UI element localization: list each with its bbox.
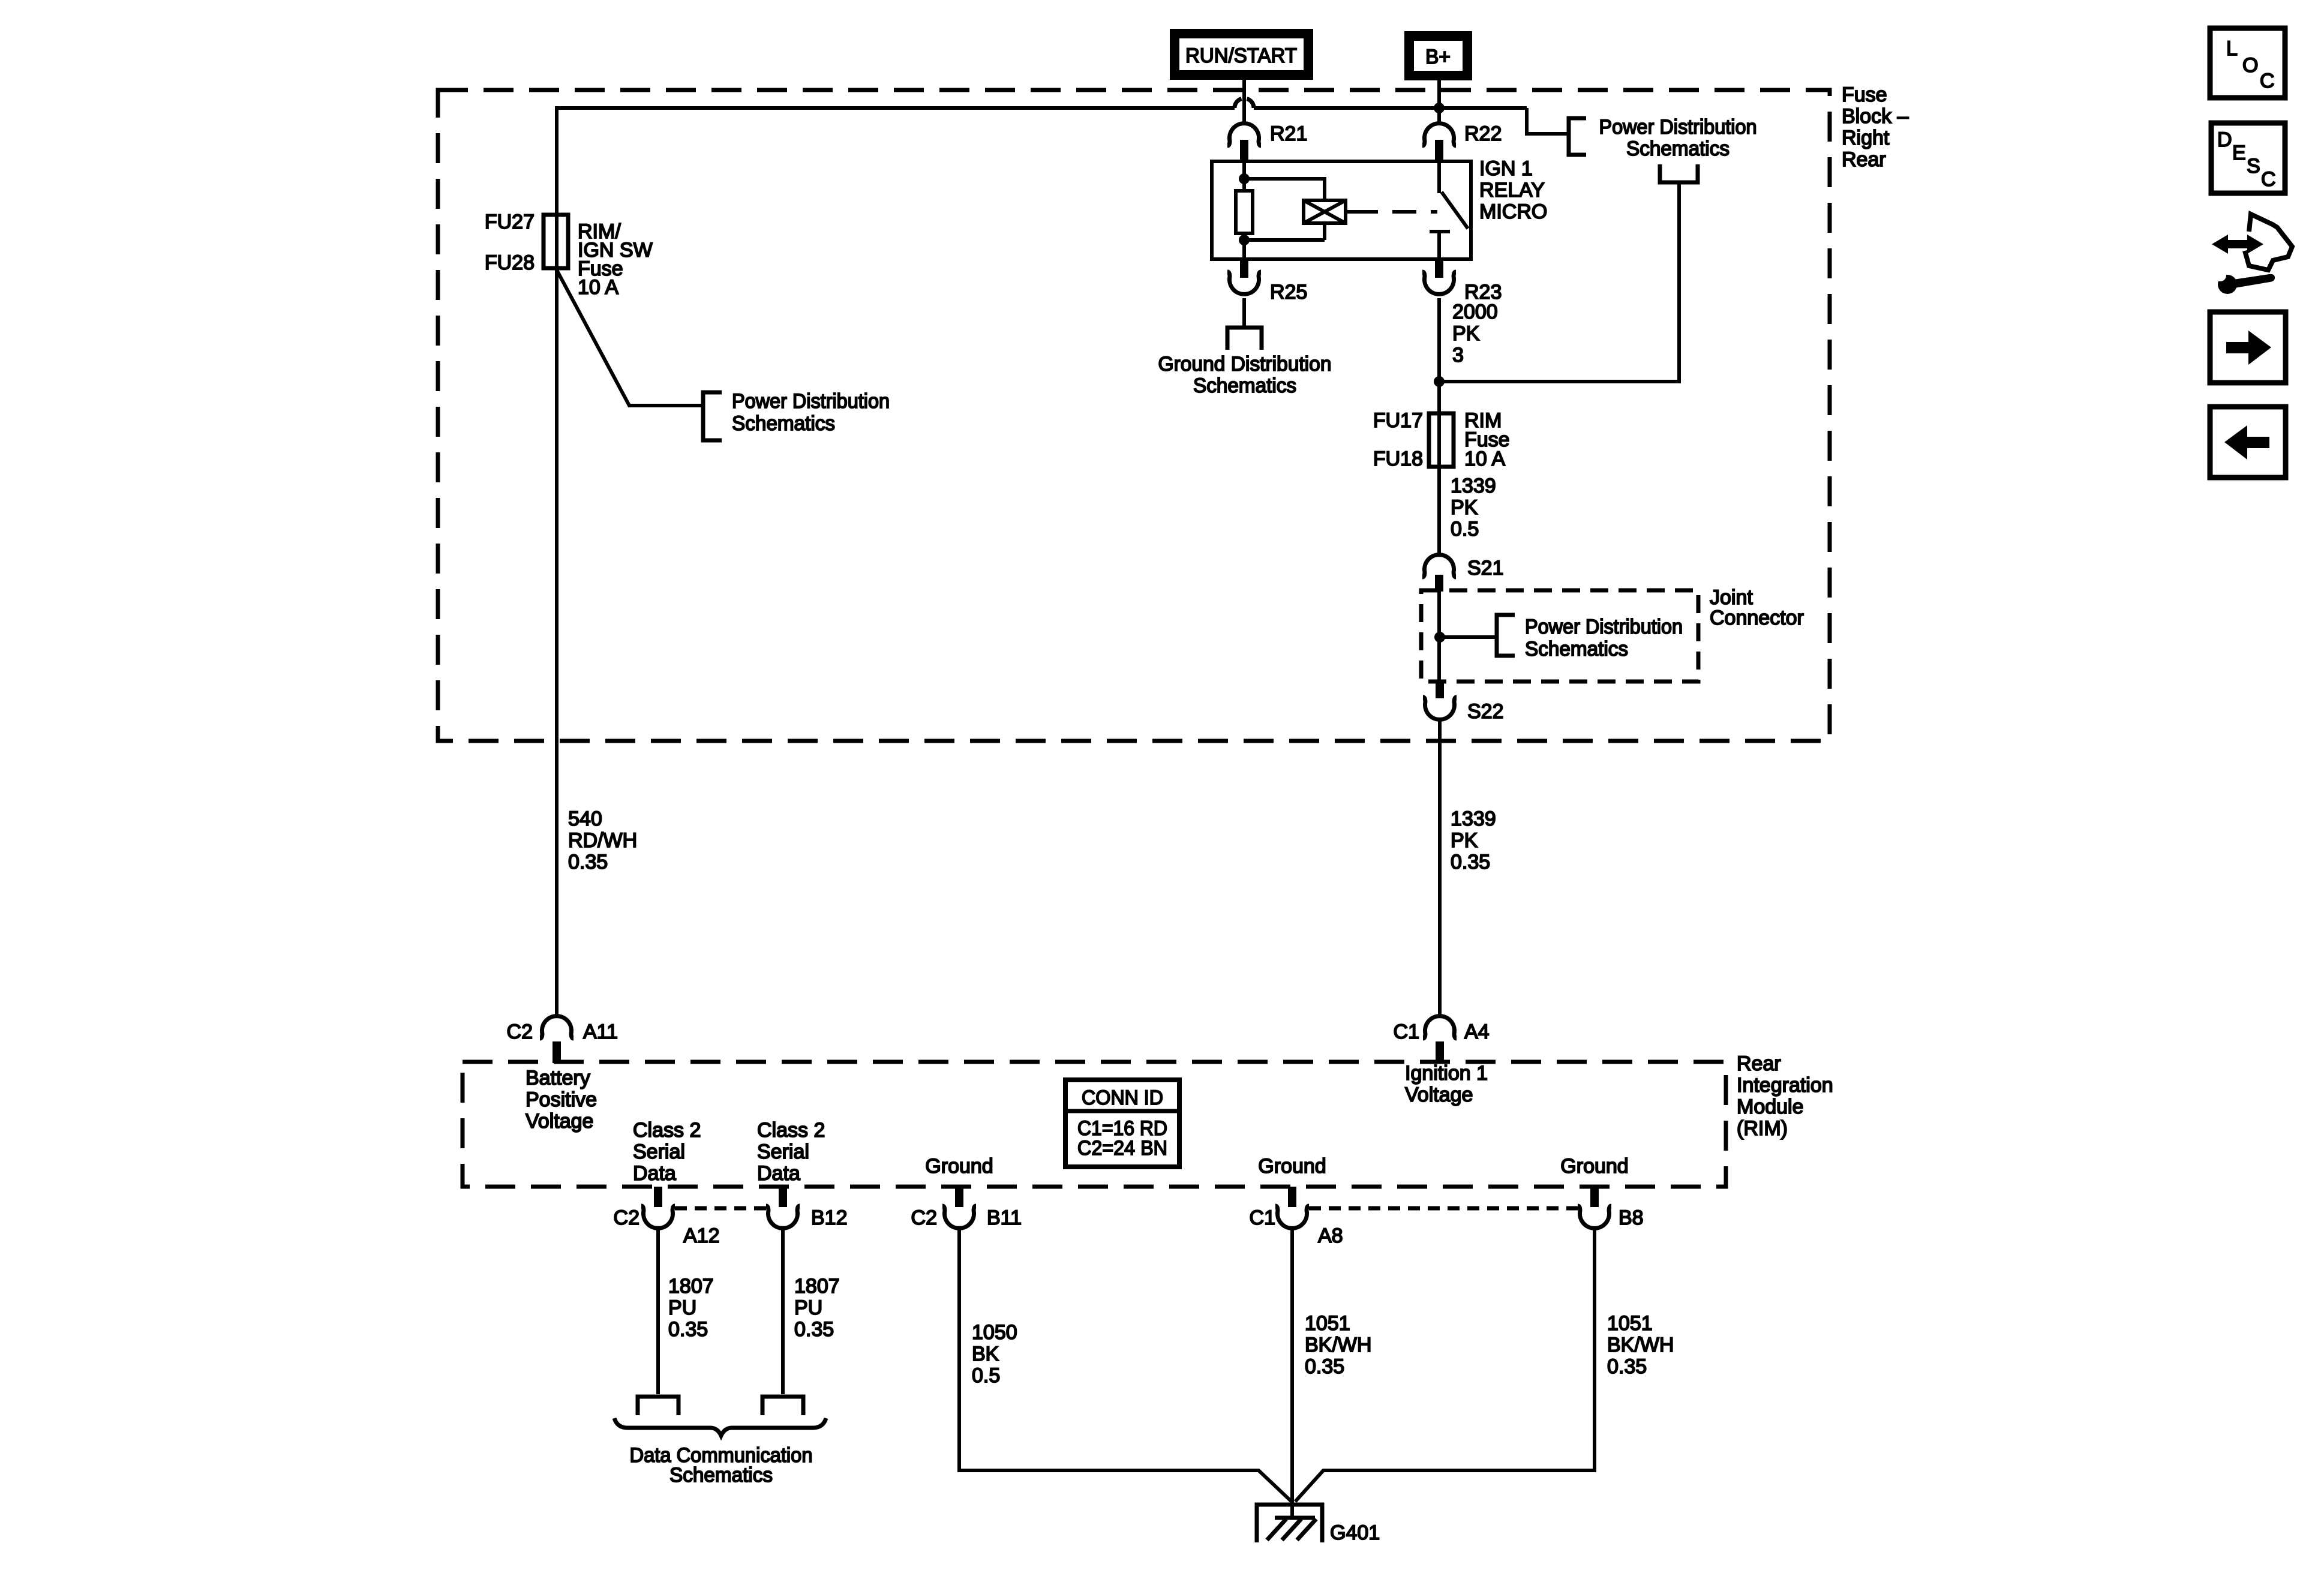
dashed pair link A12-B12 (675, 1206, 767, 1211)
resistor (relay) (1242, 179, 1246, 240)
svg-text:R22: R22 (1464, 122, 1502, 145)
wire through joint connector (1437, 592, 1441, 682)
wire relay coil branch bottom (1244, 223, 1325, 259)
icon DESC box (2211, 123, 2285, 193)
connector R25 (1227, 259, 1307, 304)
wire fuse FU28 down to module (555, 268, 559, 1014)
icon LOC box (2210, 28, 2285, 98)
svg-text:A4: A4 (1464, 1020, 1490, 1043)
CONN ID table (1065, 1080, 1179, 1167)
wire RUN/START down to R21 (1242, 80, 1246, 122)
wire relay coil branch top (1244, 163, 1325, 200)
wire B11 to ground (959, 1227, 1292, 1502)
bracket power distribution (top right) (1569, 118, 1586, 155)
relay coil (1304, 200, 1346, 223)
svg-text:B12: B12 (811, 1206, 848, 1229)
relay IGN 1 RELAY MICRO box (1212, 161, 1471, 259)
svg-text:G401: G401 (1330, 1521, 1380, 1544)
svg-text:CONN ID: CONN ID (1082, 1086, 1163, 1109)
node joint connector junction (1434, 632, 1445, 643)
svg-text:FU27: FU27 (485, 211, 535, 233)
wire R25 to ground distribution bracket (1242, 298, 1246, 328)
connector C2 A12 (module bottom) (614, 1187, 720, 1247)
svg-text:FU17: FU17 (1373, 409, 1423, 432)
svg-text:C1: C1 (1250, 1206, 1275, 1229)
connector R23 (1422, 259, 1502, 304)
fuse FU27/FU28 RIM/IGN SW (485, 211, 653, 299)
svg-text:C2=24 BN: C2=24 BN (1077, 1137, 1167, 1160)
power feed box B+ (1409, 36, 1467, 76)
icon back arrow box (2210, 407, 2286, 478)
fuse block right rear dashed box (438, 90, 1830, 741)
wire B8 to ground (1295, 1227, 1595, 1502)
svg-text:C2: C2 (911, 1206, 937, 1229)
svg-text:A11: A11 (583, 1020, 618, 1043)
connector C2 B11 (module bottom) (911, 1187, 1022, 1229)
wire corner to power distribution bracket (1527, 108, 1567, 134)
svg-text:C2: C2 (614, 1206, 639, 1229)
joint connector dashed box (1421, 590, 1698, 682)
wire horizontal bus from fuse FU27 to corner (557, 106, 1527, 110)
svg-text:C1: C1 (1394, 1020, 1419, 1043)
node junction R23 branch (1434, 376, 1445, 387)
svg-text:E: E (2232, 142, 2246, 164)
connector C2 A11 (module top) (507, 1016, 618, 1063)
connector C1 A4 (module top) (1394, 1016, 1490, 1063)
relay switch (1430, 163, 1468, 259)
wire B12 down (781, 1227, 785, 1394)
svg-text:FU18: FU18 (1373, 448, 1423, 470)
icon forward arrow box (2210, 312, 2286, 383)
wire A8 to ground (1290, 1227, 1294, 1517)
svg-text:C2: C2 (507, 1020, 533, 1043)
bracket power distribution (joint connector) (1497, 615, 1515, 656)
node relay bottom (1239, 235, 1250, 245)
bracket power distribution (left) (703, 392, 722, 440)
svg-text:B11: B11 (987, 1206, 1022, 1229)
connector C1 A8 (module bottom) (1250, 1187, 1343, 1247)
svg-text:S: S (2247, 155, 2260, 178)
wire S22 down to module C1 A4 (1438, 718, 1442, 1014)
icon wrench with arrows (2212, 214, 2292, 294)
svg-text:R21: R21 (1270, 122, 1307, 145)
node relay top (1239, 173, 1250, 184)
ground G401 (1257, 1505, 1380, 1544)
dashed link coil to switch (1354, 210, 1437, 214)
svg-text:RUN/START: RUN/START (1185, 44, 1297, 67)
bracket cup below Power Distribution text (1660, 164, 1698, 182)
svg-text:A12: A12 (683, 1224, 720, 1247)
dashed pair link A8-B8 (1309, 1206, 1578, 1211)
wire B+ down to junction (1437, 80, 1441, 108)
svg-text:C: C (2261, 168, 2276, 191)
svg-text:S21: S21 (1467, 557, 1504, 580)
connector R21 (1227, 122, 1307, 163)
connector B12 (module bottom) (766, 1187, 848, 1229)
fuse FU17/FU18 RIM Fuse (1373, 409, 1510, 470)
power feed box RUN/START (1175, 34, 1308, 75)
svg-text:Ground: Ground (1258, 1155, 1326, 1178)
svg-text:B8: B8 (1619, 1206, 1644, 1229)
svg-text:FU28: FU28 (485, 251, 535, 274)
brace data communication (614, 1418, 826, 1436)
wire R23 down to fuse FU17 (1437, 298, 1441, 413)
connector to data communication (B12) (762, 1397, 803, 1415)
wire A12 down (656, 1227, 660, 1394)
svg-text:C: C (2260, 70, 2275, 92)
bracket ground distribution (1227, 328, 1262, 350)
connector S21 (1422, 555, 1504, 592)
connector to data communication (A12) (638, 1397, 678, 1415)
svg-text:S22: S22 (1467, 700, 1504, 723)
connector S22 (1423, 682, 1504, 723)
node junction B+ bus (1434, 103, 1445, 113)
svg-text:Ground: Ground (1560, 1155, 1628, 1178)
svg-text:L: L (2226, 37, 2238, 60)
connector R22 (1422, 108, 1502, 163)
wire crossover hop at RUN/START vertical (1235, 99, 1254, 108)
wire from R23 junction up to cup bracket (1439, 184, 1679, 382)
wire junction to bracket (1440, 635, 1495, 639)
svg-text:O: O (2242, 54, 2258, 77)
wire fuse FU18 down to S21 (1437, 467, 1441, 553)
wire left bus down to fuse FU27 (555, 106, 559, 216)
svg-text:D: D (2217, 128, 2232, 151)
connector B8 (module bottom) (1578, 1187, 1644, 1229)
svg-text:Ground: Ground (925, 1155, 993, 1178)
wire coil stub right (1346, 210, 1354, 214)
svg-text:B+: B+ (1425, 46, 1451, 68)
wire branch diagonal to power distribution bracket (557, 270, 701, 406)
svg-text:A8: A8 (1318, 1224, 1343, 1247)
svg-text:R25: R25 (1270, 281, 1307, 304)
svg-text:BatteryPositiveVoltage: BatteryPositiveVoltage (526, 1067, 597, 1133)
rear integration module dashed box (463, 1062, 1726, 1187)
